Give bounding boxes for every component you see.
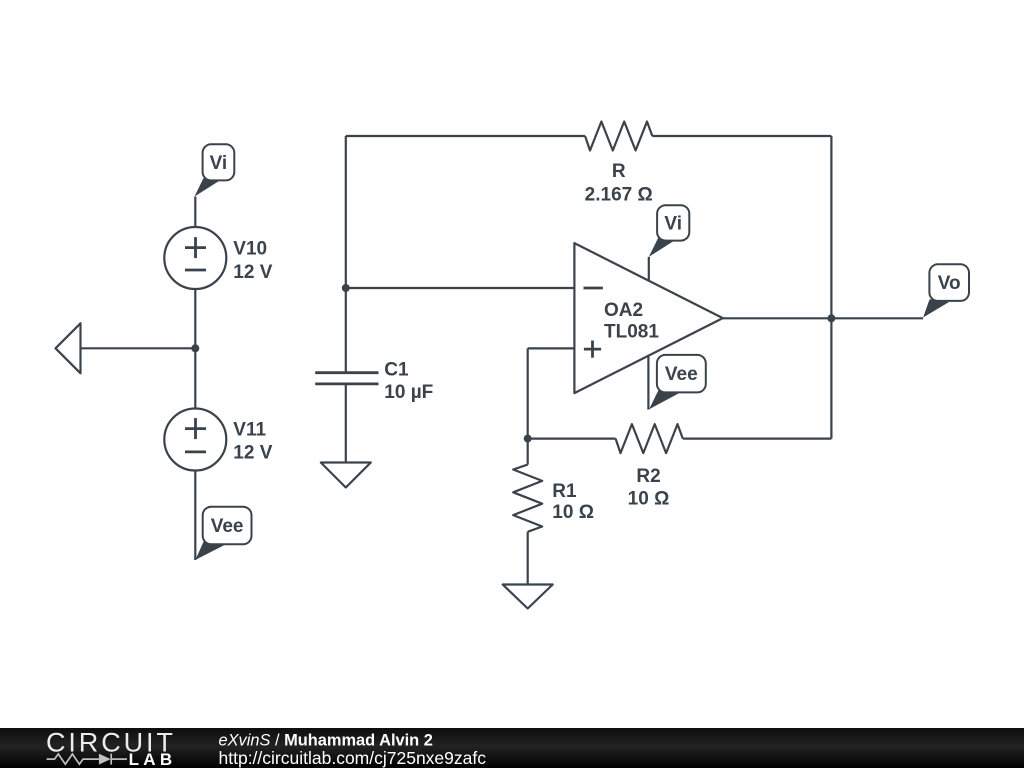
- svg-text:10 µF: 10 µF: [384, 382, 433, 403]
- label R2 10 Ω: [628, 466, 670, 510]
- wire C1 to ground: [345, 385, 347, 463]
- label V10 12 V: [233, 239, 272, 283]
- ground (below C1): [321, 463, 371, 488]
- wire R2 to right vertical: [683, 438, 832, 440]
- wire to ground arrow: [81, 347, 196, 349]
- svg-text:10 Ω: 10 Ω: [628, 489, 670, 510]
- svg-text:2.167 Ω: 2.167 Ω: [585, 185, 653, 206]
- svg-text:12 V: 12 V: [233, 443, 272, 464]
- node junction (R1/R2/plus): [524, 435, 532, 443]
- label C1 10 µF: [384, 359, 433, 403]
- wire R1 to ground: [527, 532, 529, 585]
- node junction (left): [191, 344, 199, 352]
- wire right vertical upper: [830, 136, 832, 318]
- svg-text:10 Ω: 10 Ω: [552, 502, 594, 523]
- ground (below R1): [503, 585, 553, 609]
- node junction (C1 / op-amp minus): [342, 284, 350, 292]
- wire minus input: [346, 287, 575, 289]
- wire Vi to V10: [194, 197, 196, 228]
- label OA2 TL081: [604, 300, 659, 343]
- svg-text:12 V: 12 V: [233, 262, 272, 283]
- wire top horizontal left: [346, 135, 585, 137]
- CircuitLab logo resistor+diode squiggle: [47, 754, 127, 765]
- net flag Vi (op-amp V+): [649, 205, 690, 257]
- svg-text:Vee: Vee: [211, 516, 244, 537]
- net flag Vee (source bottom): [195, 507, 251, 560]
- wire top horizontal right: [652, 135, 831, 137]
- wire op-amp Vee supply stub: [647, 356, 649, 410]
- svg-text:R: R: [612, 161, 626, 182]
- svg-text:V11: V11: [233, 420, 266, 441]
- footer bar: [0, 728, 1024, 770]
- label R 2.167 Ω: [585, 161, 653, 206]
- wire V10 to V11: [194, 289, 196, 408]
- svg-text:Vi: Vi: [664, 214, 682, 235]
- wire output to Vo: [831, 317, 923, 319]
- capacitor C1: [315, 373, 378, 384]
- wire op-amp Vi supply stub: [648, 257, 650, 281]
- wire junction to R2: [528, 438, 616, 440]
- label V11 12 V: [233, 420, 272, 464]
- wire top-left vertical (to C1): [345, 136, 347, 372]
- resistor R2: [616, 424, 683, 453]
- voltage source V10: [164, 227, 226, 289]
- wire junction to R1: [527, 439, 529, 465]
- svg-text:V10: V10: [233, 239, 267, 260]
- net flag Vee (op-amp V-): [649, 355, 706, 409]
- svg-text:R1: R1: [552, 481, 577, 502]
- svg-text:Vo: Vo: [938, 273, 961, 294]
- svg-text:http://circuitlab.com/cj725nxe: http://circuitlab.com/cj725nxe9zafc: [219, 748, 487, 768]
- op-amp minus symbol: [584, 287, 603, 290]
- voltage source V11: [164, 409, 226, 471]
- net flag Vi (source top): [195, 144, 235, 196]
- ground (left, rotated): [56, 323, 81, 373]
- svg-text:LAB: LAB: [129, 750, 177, 768]
- net flag Vo: [923, 264, 969, 317]
- wire op-amp output: [723, 317, 832, 319]
- resistor R1: [513, 465, 542, 532]
- svg-text:Vee: Vee: [665, 364, 698, 385]
- svg-text:Vi: Vi: [210, 153, 228, 174]
- op-amp plus symbol: [584, 341, 601, 358]
- wire right vertical lower: [830, 318, 832, 438]
- node junction (output): [827, 314, 835, 322]
- label R1 10 Ω: [552, 481, 594, 523]
- op-amp OA2: [574, 243, 722, 393]
- svg-text:OA2: OA2: [604, 300, 643, 321]
- wire plus input horizontal: [528, 347, 575, 349]
- svg-text:R2: R2: [636, 466, 660, 487]
- svg-text:TL081: TL081: [604, 322, 659, 343]
- svg-text:C1: C1: [384, 359, 409, 380]
- resistor R: [585, 122, 652, 151]
- wire V11 to Vee flag: [194, 470, 196, 560]
- wire plus input vertical: [527, 348, 529, 438]
